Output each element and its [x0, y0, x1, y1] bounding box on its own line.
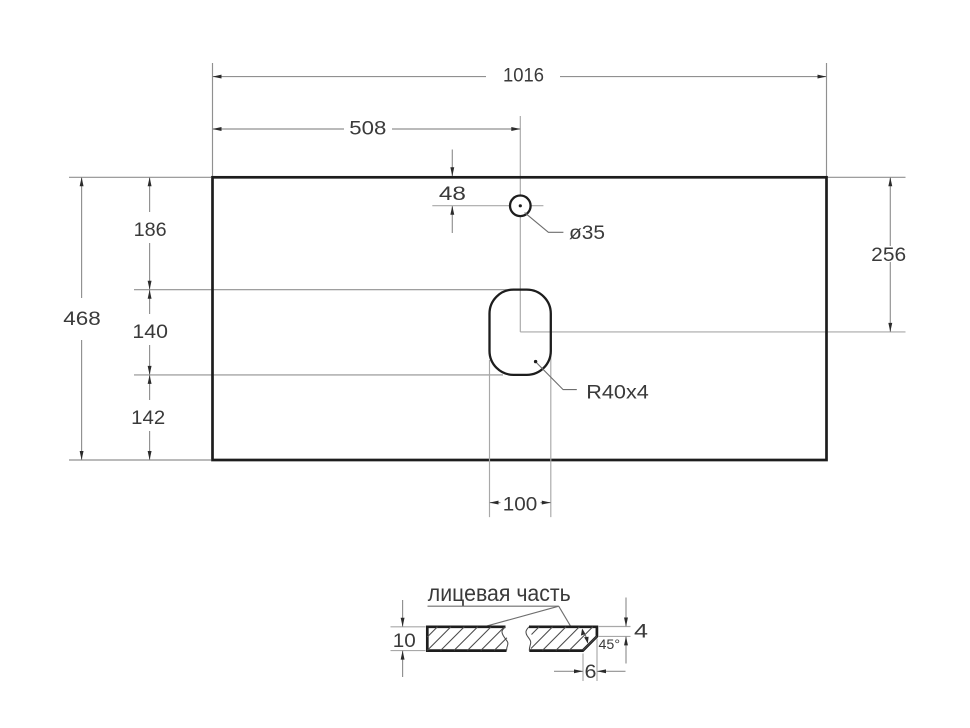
- svg-text:508: 508: [349, 118, 386, 140]
- svg-text:6: 6: [585, 661, 597, 683]
- svg-text:ø35: ø35: [569, 222, 605, 244]
- leader line for R40x4: [537, 363, 577, 390]
- svg-text:256: 256: [871, 244, 906, 266]
- leader line for ø35: [525, 213, 564, 233]
- extension lines for 10: [391, 626, 426, 628]
- svg-text:142: 142: [131, 407, 165, 429]
- dimension 4 line: [624, 598, 628, 664]
- svg-text:186: 186: [134, 219, 167, 241]
- dimension 186 line: [148, 177, 152, 289]
- dimension 48 lines: [450, 150, 454, 234]
- extension line top-left vertical: [212, 63, 214, 176]
- extension line oval left for 100: [489, 360, 491, 517]
- extension lines for 4: [598, 626, 631, 628]
- leader to right bar: [559, 606, 571, 626]
- underline of label: [428, 605, 559, 607]
- dimension 6 line: [554, 669, 626, 673]
- dimension 100 line: [490, 501, 551, 505]
- dimension 256 line: [888, 177, 892, 332]
- leader to left bar: [485, 606, 558, 626]
- right bar break squiggle: [526, 627, 531, 651]
- svg-text:R40x4: R40x4: [586, 381, 649, 403]
- centerline vertical through hole: [519, 116, 521, 332]
- svg-text:45°: 45°: [599, 636, 621, 652]
- extension lines for 6: [582, 654, 584, 682]
- svg-text:10: 10: [393, 630, 416, 652]
- dimension 1016 line: [213, 75, 827, 79]
- svg-text:468: 468: [63, 308, 101, 330]
- left bar hatch: [427, 627, 507, 651]
- extension line oval right for 100: [550, 316, 552, 517]
- extension line left-top horizontal: [69, 176, 211, 178]
- extension line left-bottom horizontal: [69, 459, 211, 461]
- countertop outline: [213, 177, 827, 460]
- centerline horizontal through hole: [432, 205, 543, 207]
- svg-text:48: 48: [439, 183, 466, 205]
- svg-text:1016: 1016: [503, 65, 544, 87]
- 45 degree angle arc with arrows: [582, 630, 587, 643]
- dimension 508 line: [213, 127, 521, 131]
- right bar hatch: [531, 627, 597, 651]
- extension line right-top horizontal: [828, 176, 906, 178]
- svg-text:лицевая часть: лицевая часть: [428, 580, 571, 606]
- dimension 142 line: [148, 375, 152, 460]
- centerline horizontal from oval center to right: [520, 331, 905, 333]
- faucet hole center dot: [519, 204, 522, 207]
- left bar break squiggle: [502, 627, 508, 651]
- svg-text:140: 140: [132, 321, 168, 343]
- svg-text:100: 100: [503, 493, 538, 515]
- extension line top-right vertical: [826, 63, 828, 176]
- dimension 10 line: [401, 600, 405, 677]
- cross-section right bar outline: [529, 627, 597, 651]
- extension line 140/142 boundary: [134, 374, 503, 376]
- oval cutout: [490, 290, 551, 375]
- faucet hole circle: [510, 196, 531, 217]
- cross-section left bar outline: [427, 627, 506, 651]
- extension line 186/140 boundary: [134, 289, 520, 291]
- dimension 140 line: [148, 290, 152, 375]
- dimension 468 line: [80, 177, 84, 460]
- svg-text:4: 4: [634, 621, 648, 643]
- leader dot on oval: [534, 360, 537, 363]
